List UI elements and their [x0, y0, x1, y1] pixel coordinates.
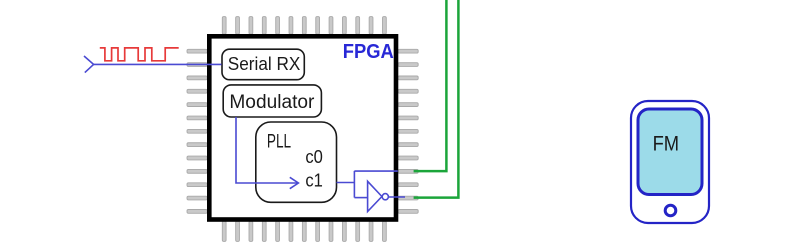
svg-text:c1: c1 — [305, 171, 323, 191]
svg-text:FM: FM — [653, 132, 680, 155]
svg-text:PLL: PLL — [267, 132, 291, 153]
svg-text:c0: c0 — [305, 147, 323, 167]
svg-text:FPGA: FPGA — [343, 41, 394, 63]
svg-text:Serial RX: Serial RX — [228, 53, 300, 74]
svg-text:Modulator: Modulator — [229, 92, 315, 113]
